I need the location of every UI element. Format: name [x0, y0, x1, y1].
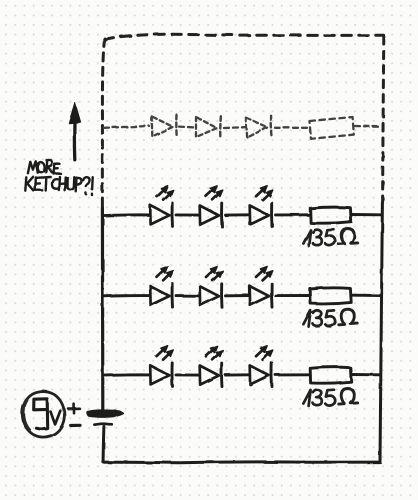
LED DX3 (dashed, planned branch)	[246, 115, 272, 139]
battery BT1 value label "V"	[51, 411, 61, 425]
wire: bottom rail to right bus	[103, 462, 380, 463]
battery BT1 minus terminal label	[71, 424, 80, 427]
battery BT1 plus terminal label	[68, 404, 79, 413]
battery BT1 positive plate	[87, 410, 123, 417]
wire: left bus (battery + to branches)	[101, 208, 105, 411]
branch 3: LEDs D7,D8,D9 + resistor R3 (135 ohm)	[103, 346, 381, 406]
wire (dashed): expansion box top bus	[104, 34, 383, 39]
annotation text "MORE"	[28, 159, 61, 173]
annotation arrow (pointing up to expansion row)	[69, 103, 80, 159]
wire (dashed) DX1 to DX2	[179, 125, 195, 128]
wire (dashed): expansion box right bus	[383, 37, 384, 203]
branch 1: LEDs D1,D2,D3 + resistor R1 (135 ohm)	[103, 186, 381, 246]
battery BT1 value label "9"	[34, 399, 48, 429]
wire: right bus (branches to battery -)	[380, 203, 382, 462]
wire (dashed): expansion box left bus	[102, 39, 104, 208]
battery BT1 negative plate	[94, 424, 111, 425]
wire (dashed) DX3 to resistor RX	[275, 127, 308, 129]
wire (dashed) left bus to LED DX1	[104, 126, 149, 128]
wire: battery negative to bottom rail	[102, 427, 106, 462]
branch 2: LEDs D4,D5,D6 + resistor R2 (135 ohm)	[103, 266, 381, 326]
LED DX2 (dashed, planned branch)	[195, 115, 221, 139]
wire (dashed) DX2 to DX3	[224, 126, 245, 129]
wire (dashed) resistor RX to right bus	[355, 125, 381, 128]
resistor RX (dashed, planned branch)	[310, 117, 354, 139]
battery BT1: 9V source circle	[22, 392, 64, 438]
LED DX1 (dashed, planned branch)	[152, 115, 177, 138]
annotation text "KETCHUP?!"	[25, 177, 92, 195]
